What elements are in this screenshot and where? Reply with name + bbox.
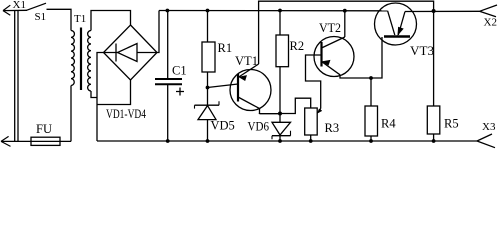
node output: [432, 9, 436, 13]
transistor VT2: [314, 37, 354, 77]
wire VT2 collector: [344, 11, 346, 37]
transistor VT3: [375, 3, 417, 45]
node VT1 base: [206, 86, 210, 90]
node VT1 emitter junction: [278, 112, 282, 116]
resistor R4: [365, 78, 378, 141]
bridge rectifier VD1-VD4 diamond: [104, 25, 158, 80]
label C1 plus: [176, 88, 184, 96]
resistor R2: [276, 11, 289, 114]
wire mains pair right: [17, 10, 19, 141]
wire R3 wiper to VT2 base: [306, 55, 322, 109]
svg-text:VT2: VT2: [319, 21, 341, 35]
wire mains pair left: [14, 10, 16, 141]
plug X1 top prong arrow: [3, 5, 27, 15]
wire FU to T1 primary bottom: [70, 86, 72, 142]
svg-text:S1: S1: [35, 11, 47, 23]
potentiometer R3 wiper arrow: [317, 109, 322, 114]
svg-text:VD5: VD5: [211, 119, 235, 133]
bridge inner diode: [104, 44, 158, 62]
svg-text:R3: R3: [325, 121, 340, 135]
node R2 top: [278, 9, 282, 13]
node VD5 bottom: [206, 139, 210, 143]
plug X1 bottom prong arrow: [1, 136, 11, 146]
transformer T1 primary winding: [71, 31, 74, 86]
socket X3: [477, 134, 495, 148]
wire VT3 emitter rail to output: [405, 10, 480, 12]
wire node to R3 top: [280, 98, 311, 113]
svg-text:T1: T1: [74, 13, 86, 25]
node R4 bottom: [369, 139, 373, 143]
svg-text:R5: R5: [444, 117, 459, 131]
wire secondary bottom jog: [91, 91, 97, 98]
switch S1: [27, 3, 47, 10]
svg-text:C1: C1: [172, 64, 187, 78]
transformer T1 core: [80, 28, 82, 91]
node C1 bottom: [166, 139, 170, 143]
wire bridge left corner to minus rail: [97, 53, 104, 142]
transformer T1 secondary winding: [88, 31, 91, 92]
node R1 top: [206, 9, 210, 13]
wire VT2 emitter to VT3 base: [340, 37, 382, 78]
svg-text:X2: X2: [484, 17, 497, 29]
node R4 top: [369, 76, 373, 80]
capacitor C1: [155, 11, 182, 142]
wire secondary top to bridge top corner: [91, 11, 131, 31]
node R3 bottom: [309, 139, 313, 143]
wire S1 to T1 primary: [47, 9, 72, 30]
socket X2: [480, 5, 498, 17]
node C1 top: [166, 9, 170, 13]
resistor R5: [427, 11, 440, 141]
svg-text:R1: R1: [218, 41, 233, 55]
fuse FU: [1, 137, 71, 145]
potentiometer R3: [305, 108, 318, 141]
svg-text:VT1: VT1: [235, 54, 258, 68]
plus rail (top): [159, 10, 388, 12]
svg-text:VD1-VD4: VD1-VD4: [106, 107, 147, 121]
node R5 bottom: [432, 139, 436, 143]
wire VT1 base: [208, 84, 239, 88]
zener diode VD5: [195, 88, 220, 142]
resistor R1: [202, 11, 215, 88]
wire VT1 emitter to node: [260, 113, 281, 115]
node VT2 collector: [343, 9, 347, 13]
svg-text:R4: R4: [381, 117, 396, 131]
wire VT1 collector to output bypass: [259, 1, 434, 64]
wire bridge bottom corner jog: [97, 80, 131, 105]
svg-text:VT3: VT3: [410, 44, 434, 58]
node VD6 bottom: [278, 139, 282, 143]
svg-text:VD6: VD6: [248, 120, 270, 134]
minus rail (bottom): [97, 140, 477, 142]
wire bridge right corner to plus rail: [157, 11, 159, 53]
svg-text:R2: R2: [290, 39, 305, 53]
svg-text:FU: FU: [36, 122, 52, 136]
transistor VT1: [230, 64, 271, 114]
svg-text:X3: X3: [482, 121, 496, 133]
zener diode VD6: [272, 114, 291, 142]
svg-text:X1: X1: [13, 0, 26, 11]
